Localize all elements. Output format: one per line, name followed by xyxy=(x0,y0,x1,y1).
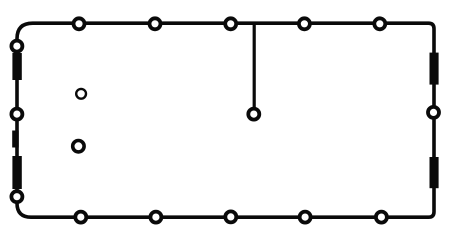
bolt hole top 1 xyxy=(74,18,85,29)
center stem wire xyxy=(253,23,256,110)
right bar 2 xyxy=(430,157,439,188)
bolt hole center stem xyxy=(248,109,259,120)
bolt hole top 5 xyxy=(374,18,385,29)
bolt hole top 4 xyxy=(299,18,310,29)
left bar 2 xyxy=(12,156,21,189)
bolt hole left 1 xyxy=(11,41,22,52)
bolt hole bottom 1 xyxy=(75,212,86,223)
bolt hole right xyxy=(428,107,439,118)
bolt hole bottom 3 xyxy=(225,211,236,222)
bolt hole left 3 xyxy=(11,191,22,202)
inner hole small xyxy=(76,89,86,99)
gasket outline xyxy=(17,23,434,217)
bolt hole top 3 xyxy=(225,18,236,29)
right bar 1 xyxy=(430,53,439,85)
bolt hole bottom 5 xyxy=(376,212,387,223)
bolt hole bottom 4 xyxy=(300,212,311,223)
bolt hole left 2 xyxy=(11,109,22,120)
left tab bar xyxy=(12,131,19,148)
inner hole large xyxy=(73,141,84,152)
left bar 1 xyxy=(12,53,21,80)
bolt hole top 2 xyxy=(150,18,161,29)
bolt hole bottom 2 xyxy=(150,212,161,223)
